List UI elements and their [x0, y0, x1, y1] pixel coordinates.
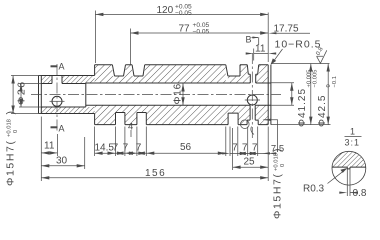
hole 1 (phi15H7)	[52, 96, 62, 106]
dim phi41.25 right	[271, 83, 294, 106]
svg-text:−0.05: −0.05	[193, 28, 210, 35]
svg-text:R0.3: R0.3	[303, 184, 325, 195]
svg-text:7: 7	[252, 143, 258, 154]
section line A-A vertical	[56, 64, 58, 132]
svg-text:7: 7	[113, 143, 119, 154]
dim 77 +0.05/-0.05	[130, 29, 132, 65]
main bore lines	[86, 83, 271, 105]
svg-text:−0.1: −0.1	[332, 76, 338, 87]
svg-text:Φ16: Φ16	[173, 83, 184, 105]
main top profile	[95, 65, 269, 83]
detail circle	[332, 151, 366, 185]
row1 right: 7 7 7 7.5	[230, 127, 268, 182]
right face	[268, 65, 271, 125]
dim phi26 left	[11, 76, 41, 114]
dim 11 top	[254, 49, 269, 61]
svg-text:56: 56	[180, 142, 192, 153]
step to main section	[94, 65, 96, 125]
svg-text:): )	[272, 149, 284, 153]
svg-text:1: 1	[350, 127, 355, 137]
svg-text:Φ15H7(: Φ15H7(	[272, 172, 284, 219]
dim phi16 bore	[182, 84, 184, 106]
detail chord surface	[332, 167, 366, 169]
detail hatch	[332, 151, 366, 167]
svg-text:+0.018: +0.018	[274, 153, 280, 171]
svg-text:11: 11	[44, 141, 55, 152]
svg-text:10−R0.5: 10−R0.5	[275, 39, 322, 51]
hatch left-bottom wall	[41, 107, 94, 114]
svg-text:Φ15H7(: Φ15H7(	[5, 139, 17, 186]
detail boundary circle on keyhole	[241, 120, 250, 129]
svg-text:156: 156	[145, 168, 166, 179]
row1: 14.5	[94, 127, 96, 157]
svg-text:14.5: 14.5	[95, 143, 115, 154]
svg-text:30: 30	[56, 156, 68, 167]
svg-text:11: 11	[255, 44, 266, 55]
row3: 156	[41, 177, 268, 179]
main bottom profile	[95, 105, 269, 124]
dim phi15H7 left (counterbore)	[19, 84, 41, 108]
svg-text:A: A	[59, 124, 65, 134]
svg-text:7: 7	[123, 143, 129, 154]
svg-text:Φ26: Φ26	[16, 80, 28, 105]
svg-text:3:1: 3:1	[345, 138, 361, 148]
svg-text:7: 7	[242, 143, 248, 154]
svg-text:A: A	[59, 62, 65, 72]
hatch main top wall	[95, 65, 113, 83]
shaft outline: left section	[39, 76, 95, 114]
hole2 centerline vertical	[251, 53, 253, 139]
svg-text:): )	[5, 111, 17, 115]
hole 2 (phi15H7)	[247, 95, 257, 105]
roughness symbol 0.8	[317, 50, 327, 63]
svg-text:+0.018: +0.018	[7, 119, 13, 137]
svg-text:77: 77	[179, 24, 191, 35]
svg-text:0.8: 0.8	[353, 188, 367, 199]
hole 1 crosshair	[50, 100, 65, 102]
hole 2 crosshair	[245, 99, 260, 101]
row1: 7 7 7	[116, 127, 147, 157]
svg-text:25: 25	[244, 157, 256, 168]
top slot over hole1	[52, 76, 62, 84]
detail 0.8 ext lines	[347, 169, 350, 196]
main centerline	[31, 94, 281, 96]
svg-text:120: 120	[157, 5, 174, 16]
dim 120 +0.05/-0.05	[94, 11, 96, 64]
svg-text:B: B	[246, 35, 252, 45]
row1: 56	[225, 127, 227, 157]
left inner bore lines (counterbore)	[41, 84, 86, 108]
svg-text:−0.005: −0.005	[313, 70, 319, 88]
row2: 25	[232, 128, 234, 170]
bottom dims row1: 11	[41, 117, 57, 182]
svg-text:Φ42.5: Φ42.5	[317, 95, 328, 127]
A marks	[51, 65, 58, 67]
phi15H7 bottom middle leader	[264, 120, 278, 152]
svg-text:0: 0	[13, 130, 19, 133]
svg-text:−0.05: −0.05	[175, 10, 192, 17]
svg-text:Φ41.25: Φ41.25	[297, 88, 308, 127]
svg-text:0: 0	[280, 164, 286, 167]
hatch main bottom wall	[95, 105, 116, 124]
hatch left-top wall	[41, 76, 52, 84]
row2: 30	[84, 137, 86, 169]
svg-text:17.75: 17.75	[274, 24, 299, 35]
dim 17.75	[276, 32, 311, 34]
extension right face up	[267, 13, 269, 63]
svg-text:7: 7	[136, 143, 142, 154]
dim phi42.5 right	[271, 64, 331, 125]
